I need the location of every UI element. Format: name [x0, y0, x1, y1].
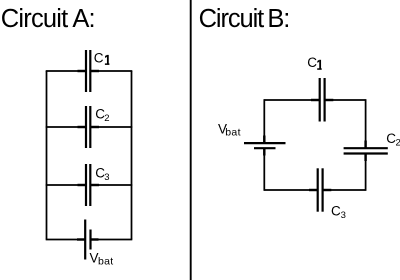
capacitor C1 B	[320, 78, 325, 122]
capacitor C2	[86, 106, 90, 148]
battery Vbat B	[244, 143, 286, 148]
wire left edge A	[46, 71, 48, 240]
wire left edge B	[263, 99, 265, 191]
svg-text:3: 3	[104, 172, 109, 183]
label C3	[95, 166, 109, 183]
wire bottom edge B	[264, 189, 365, 191]
wire rung 2 A	[46, 126, 133, 128]
capacitor C2 B	[344, 148, 388, 153]
wire top edge B	[264, 99, 365, 101]
battery Vbat A	[85, 220, 90, 260]
svg-text:Circuit A:: Circuit A:	[1, 5, 95, 33]
svg-text:2: 2	[396, 138, 400, 149]
divider	[190, 0, 192, 280]
wire right edge A	[131, 71, 133, 240]
label C1	[94, 51, 110, 66]
label C2	[95, 106, 109, 124]
svg-text:C: C	[331, 203, 341, 218]
svg-text:C: C	[307, 55, 317, 70]
capacitor C1	[86, 50, 90, 92]
label C1 B	[307, 55, 321, 70]
wire rung 3 A	[46, 184, 133, 186]
label Vbat A	[90, 250, 114, 267]
label C2 B	[386, 131, 400, 149]
svg-text:C: C	[94, 51, 104, 66]
wire top rung A	[46, 70, 133, 72]
label C3 B	[331, 203, 346, 221]
svg-text:Circuit B:: Circuit B:	[199, 5, 290, 33]
svg-text:3: 3	[341, 210, 346, 221]
label Vbat B	[218, 122, 241, 139]
capacitor C3 B	[318, 168, 323, 211]
svg-text:bat: bat	[225, 127, 241, 139]
wire right edge B	[365, 99, 367, 191]
wire bottom rung A	[46, 239, 133, 241]
capacitor C3	[86, 164, 90, 206]
svg-text:bat: bat	[98, 256, 114, 268]
svg-text:2: 2	[104, 113, 109, 124]
